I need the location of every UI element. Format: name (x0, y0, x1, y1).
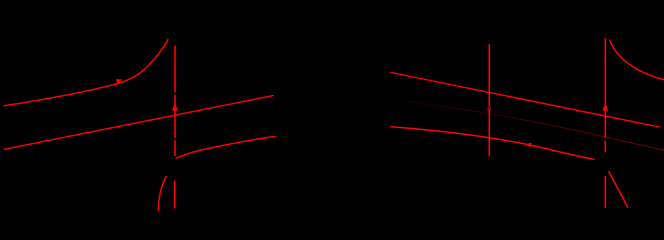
arrowhead on right vertical line (pointing up) (602, 103, 608, 111)
left panel: branch leaving junction to the right (flattening) (177, 136, 276, 158)
arrowhead on left vertical line (pointing up) (172, 103, 178, 111)
left panel: lower vertical stroke below junction (174, 181, 176, 208)
arrowhead on lower solution curve (pointing left) (525, 143, 531, 148)
left panel: vertical asymptote line x=175 (upper piece) (174, 46, 176, 157)
right panel: dim dark-red line (404, 101, 664, 150)
left panel: straight line solution (slanted) (4, 96, 273, 150)
right panel: top straight line solution (slanted, fading end) (391, 73, 660, 128)
right panel: lower solution curve (accelerating downward) (391, 127, 594, 160)
right panel: decaying curve right of vertical asymptote (610, 40, 664, 80)
left panel: blow-up solution curve (upper left, rises to vertical asymptote) (4, 40, 168, 106)
right panel: middle vertical asymptote x=489 (488, 44, 490, 156)
left panel: branch curving down-left to bottom (158, 177, 166, 211)
right panel: branch curving down-right to bottom (609, 172, 628, 208)
right panel: right vertical asymptote x=605 (upper piece) (604, 38, 606, 153)
arrowhead on upper-left curve (pointing up-right) (116, 79, 123, 84)
right panel: lower vertical stroke below junction (604, 177, 606, 208)
dim arrowhead on middle vertical line (487, 104, 492, 110)
